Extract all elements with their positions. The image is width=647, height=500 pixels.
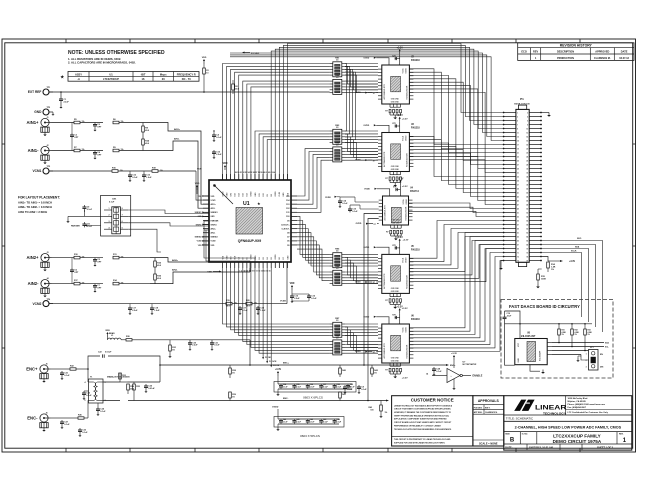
svg-text:THIS CIRCUIT IS PROPRIETARY TO: THIS CIRCUIT IS PROPRIETARY TO LINEAR TE… bbox=[394, 438, 451, 441]
svg-text:VDD: VDD bbox=[207, 272, 212, 274]
buffer U6 FIN1218 #4 bbox=[355, 306, 421, 379]
wire enc mid to nets bbox=[160, 365, 230, 401]
fast daacs dashed box bbox=[501, 300, 613, 379]
svg-text:ROIZZEZZOIZR: ROIZZEZZOIZR bbox=[406, 85, 408, 99]
resistor network RN6 bbox=[330, 266, 345, 285]
svg-text:APPROVALS: APPROVALS bbox=[478, 399, 500, 403]
svg-text:GND GND: GND GND bbox=[391, 360, 400, 362]
svg-text:SENSE1: SENSE1 bbox=[211, 212, 218, 214]
svg-text:VDD: VDD bbox=[290, 283, 295, 285]
resistor R7 bbox=[52, 147, 104, 152]
svg-text:ENC+: ENC+ bbox=[450, 365, 456, 367]
svg-text:VCM2: VCM2 bbox=[211, 241, 216, 243]
svg-text:65: 65 bbox=[517, 240, 519, 242]
svg-text:6: 6 bbox=[122, 221, 123, 223]
svg-text:VERIFY PROPER AND RELIABLE OPE: VERIFY PROPER AND RELIABLE OPERATION IN … bbox=[394, 414, 450, 417]
svg-text:SDO: SDO bbox=[577, 238, 582, 240]
resistor network RN4 bbox=[330, 142, 345, 162]
resistor R21 pullup bbox=[558, 324, 567, 344]
svg-text:OVDD: OVDD bbox=[251, 254, 253, 260]
svg-text:49.9: 49.9 bbox=[235, 87, 239, 90]
node PAR SER label bbox=[71, 224, 101, 227]
power VDD left rail bbox=[195, 183, 200, 194]
svg-text:5: 5 bbox=[122, 227, 123, 229]
resistor network RN1 bbox=[330, 57, 345, 76]
svg-text:R23: R23 bbox=[588, 330, 591, 332]
svg-text:AIN2-: AIN2- bbox=[172, 269, 178, 272]
svg-text:19: 19 bbox=[517, 148, 519, 150]
svg-text:SDI: SDI bbox=[230, 256, 232, 259]
svg-text:CLKOUT+: CLKOUT+ bbox=[281, 224, 290, 226]
svg-text:17: 17 bbox=[517, 144, 519, 146]
svg-text:GND: GND bbox=[211, 216, 216, 218]
svg-text:100: 100 bbox=[370, 409, 373, 411]
svg-text:U1: U1 bbox=[109, 72, 113, 76]
svg-text:R?: R? bbox=[385, 110, 387, 112]
svg-text:D14: D14 bbox=[286, 199, 289, 202]
svg-text:TECHNOLOGY: TECHNOLOGY bbox=[543, 411, 566, 415]
svg-text:10: 10 bbox=[206, 72, 208, 74]
capacitor C20 enc bbox=[51, 369, 71, 380]
notes text bbox=[68, 50, 165, 65]
connector J2 AIN1- bbox=[28, 145, 52, 164]
svg-text:-BIT: -BIT bbox=[140, 72, 145, 76]
connector J1 AIN1+ bbox=[27, 117, 52, 136]
wire bus U1 right down channel to RN5 RN6 bbox=[297, 216, 330, 280]
svg-text:PRODUCTION: PRODUCTION bbox=[557, 57, 574, 60]
resistor network enc mid bbox=[103, 373, 160, 401]
wire eeprom signals bbox=[552, 342, 609, 355]
resistor R9 bbox=[113, 147, 150, 152]
inverter U7 NC7SP14P5X bbox=[426, 362, 483, 390]
revision history table bbox=[518, 43, 634, 61]
svg-text:ACTZABEZLRTR: ACTZABEZLRTR bbox=[384, 205, 387, 221]
svg-text:2.2uF: 2.2uF bbox=[64, 101, 70, 103]
resistor R24 bbox=[142, 136, 150, 151]
svg-text:OVDD: OVDD bbox=[363, 125, 369, 127]
resistor R6 bbox=[113, 119, 150, 124]
svg-text:LINEAR TECHNOLOGY HAS MADE A B: LINEAR TECHNOLOGY HAS MADE A BEST EFFORT… bbox=[394, 404, 453, 407]
resistor R25 bbox=[154, 258, 162, 271]
wire VCM2 vertical to U1 bbox=[280, 262, 287, 304]
svg-text:NOTE: UNLESS OTHERWISE SPECIFI: NOTE: UNLESS OTHERWISE SPECIFIED bbox=[68, 50, 165, 56]
resistor R26 bbox=[154, 271, 162, 284]
svg-text:D5: D5 bbox=[287, 245, 289, 247]
svg-text:OVDD: OVDD bbox=[222, 191, 224, 197]
svg-text:D6: D6 bbox=[287, 241, 289, 243]
wire AIN2 to U1 pins bbox=[204, 221, 255, 272]
svg-text:R?: R? bbox=[386, 231, 388, 233]
svg-text:12: 12 bbox=[526, 132, 528, 134]
svg-text:D2: D2 bbox=[259, 257, 261, 259]
svg-text:GND: GND bbox=[518, 358, 520, 363]
resistor R36 enc- series bbox=[62, 401, 89, 420]
svg-text:AIN2-: AIN2- bbox=[28, 281, 40, 286]
svg-text:R?: R? bbox=[385, 369, 387, 371]
svg-text:OVDD: OVDD bbox=[275, 254, 277, 260]
svg-text:APP ENG.: APP ENG. bbox=[474, 411, 483, 414]
wire ENC- to clock buffer bbox=[367, 219, 379, 402]
resistor R5 bbox=[52, 119, 104, 124]
wire staircase RN5 to U5 lower bbox=[345, 257, 378, 283]
svg-text:CLARENCE M.: CLARENCE M. bbox=[485, 411, 498, 414]
svg-text:BEAD: BEAD bbox=[109, 332, 115, 335]
svg-text:1.0uF: 1.0uF bbox=[146, 177, 152, 179]
U1 top pins bbox=[222, 171, 289, 197]
svg-text:CLK2: CLK2 bbox=[279, 192, 281, 197]
wire bus P1 right to board id bbox=[542, 238, 603, 332]
svg-text:0.1uF: 0.1uF bbox=[64, 375, 70, 377]
resistor R18 bbox=[118, 167, 196, 172]
svg-text:0.1uF: 0.1uF bbox=[436, 371, 442, 373]
svg-text:0.1uF: 0.1uF bbox=[361, 389, 367, 391]
label T1 part bbox=[107, 376, 130, 379]
svg-text:J6: J6 bbox=[46, 412, 48, 414]
svg-text:VCCA: VCCA bbox=[401, 135, 404, 141]
svg-text:R?: R? bbox=[385, 300, 387, 302]
IC U1 LTC2270CUP ADC QFN64 bbox=[209, 180, 291, 262]
svg-text:68: 68 bbox=[526, 244, 528, 246]
svg-text:R33: R33 bbox=[122, 375, 125, 377]
svg-text:31: 31 bbox=[517, 172, 519, 174]
svg-text:37: 37 bbox=[517, 184, 519, 186]
svg-text:OND OND: OND OND bbox=[391, 166, 400, 168]
svg-text:51: 51 bbox=[517, 212, 519, 214]
svg-text:3: 3 bbox=[586, 367, 587, 369]
resistor R11 bbox=[113, 254, 150, 259]
svg-text:+3.3V: +3.3V bbox=[397, 306, 404, 308]
svg-text:D4: D4 bbox=[266, 257, 269, 259]
svg-text:18: 18 bbox=[526, 144, 528, 146]
svg-text:2.2uF: 2.2uF bbox=[294, 298, 300, 300]
svg-text:8: 8 bbox=[527, 124, 528, 126]
U1 left pins bbox=[203, 196, 219, 247]
capacitor C6 OPT bbox=[70, 258, 79, 284]
svg-text:OND OND: OND OND bbox=[391, 358, 400, 360]
buffer U3 FIN1218 #2 bbox=[355, 115, 421, 188]
svg-text:0.1uF: 0.1uF bbox=[82, 432, 88, 434]
svg-text:ACTZABEZLRTR: ACTZABEZLRTR bbox=[383, 343, 386, 359]
svg-text:52: 52 bbox=[526, 212, 528, 214]
resistor R16 bbox=[49, 167, 123, 172]
svg-text:28: 28 bbox=[526, 164, 528, 166]
svg-text:62: 62 bbox=[526, 232, 528, 234]
svg-text:2.2uF: 2.2uF bbox=[132, 310, 138, 312]
svg-text:D0: D0 bbox=[243, 257, 245, 259]
capacitor C33 encj bbox=[78, 428, 88, 437]
svg-text:2.2uF: 2.2uF bbox=[216, 154, 222, 156]
svg-text:LTC2270CUP: LTC2270CUP bbox=[103, 77, 119, 81]
svg-text:OVDD: OVDD bbox=[363, 247, 369, 249]
svg-text:OVDD: OVDD bbox=[363, 316, 369, 318]
svg-text:38: 38 bbox=[526, 184, 528, 186]
svg-text:53: 53 bbox=[517, 216, 519, 218]
wire AIN2- net bbox=[150, 269, 250, 284]
svg-text:+3.3V: +3.3V bbox=[402, 186, 408, 188]
svg-text:11: 11 bbox=[517, 132, 519, 134]
wire ENC- net bbox=[230, 398, 389, 402]
wire RN1 RN2 outputs to U2 bbox=[345, 64, 378, 93]
svg-text:55: 55 bbox=[517, 220, 519, 222]
resistor R13 bbox=[113, 279, 150, 285]
svg-text:D10: D10 bbox=[286, 216, 289, 218]
resistor R39 enc term2 bbox=[229, 392, 236, 401]
svg-text:KIM T.: KIM T. bbox=[485, 407, 491, 409]
svg-text:+3.3V: +3.3V bbox=[397, 237, 404, 239]
svg-text:APPLICATION. COMPONENT SUBSTIT: APPLICATION. COMPONENT SUBSTITUTION AND … bbox=[394, 418, 447, 421]
svg-text:0.1uF: 0.1uF bbox=[86, 395, 92, 397]
buffer U2 FIN1218 #1 bbox=[355, 47, 421, 120]
svg-text:OODD: OODD bbox=[405, 67, 407, 73]
svg-text:ACTZABEZLRTR: ACTZABEZLRTR bbox=[383, 84, 386, 100]
svg-text:OODD: OODD bbox=[405, 257, 407, 263]
svg-text:-A: -A bbox=[77, 77, 80, 81]
capacitor C26 enc- bbox=[51, 418, 71, 429]
resistor R4 bbox=[142, 123, 149, 137]
linear technology logo bbox=[514, 399, 567, 416]
wire bus U1 top to RN3 bbox=[255, 131, 330, 180]
svg-text:70: 70 bbox=[526, 248, 528, 250]
connector J5 ENC+ bbox=[26, 363, 50, 382]
capacitor C22 coupling bbox=[98, 352, 112, 358]
svg-text:OVDD: OVDD bbox=[275, 191, 277, 197]
svg-text:20: 20 bbox=[526, 148, 528, 150]
wire boardid top rail bbox=[505, 311, 593, 325]
svg-text:13: 13 bbox=[517, 136, 519, 138]
svg-text:X?: X? bbox=[374, 224, 376, 226]
svg-text:0.1uF: 0.1uF bbox=[100, 411, 106, 413]
svg-text:49.9: 49.9 bbox=[157, 264, 161, 267]
svg-text:0.1uF: 0.1uF bbox=[216, 137, 222, 139]
svg-text:3: 3 bbox=[109, 221, 110, 223]
wire bus U1 bottom SPI stubs bbox=[262, 268, 280, 367]
svg-text:P1: P1 bbox=[520, 97, 524, 101]
capacitor C10 clock bbox=[348, 205, 360, 213]
capacitor C30 shunt bbox=[188, 340, 198, 351]
svg-text:OVDD: OVDD bbox=[363, 57, 369, 59]
svg-text:2: 2 bbox=[527, 112, 528, 114]
svg-text:AIN1+: AIN1+ bbox=[27, 120, 40, 125]
resistor R23 pullup bbox=[584, 324, 593, 352]
svg-text:D1: D1 bbox=[247, 257, 249, 259]
svg-text:D8: D8 bbox=[287, 233, 289, 235]
capacitor C9 bbox=[82, 205, 92, 216]
svg-text:VDD: VDD bbox=[195, 183, 200, 185]
svg-text:FIN1218: FIN1218 bbox=[411, 319, 421, 321]
capacitor C5 OPT bbox=[93, 258, 102, 267]
svg-text:0.1uF: 0.1uF bbox=[347, 389, 353, 391]
resistor R41 mid term bbox=[339, 392, 346, 401]
svg-text:FIN1218: FIN1218 bbox=[411, 128, 421, 130]
svg-text:1%: 1% bbox=[385, 412, 388, 414]
svg-text:OODD: OODD bbox=[406, 198, 408, 204]
wire vdd rail drop to enc bbox=[249, 340, 251, 366]
svg-text:OVDD: OVDD bbox=[325, 197, 331, 199]
svg-text:D9: D9 bbox=[267, 194, 269, 196]
svg-text:33: 33 bbox=[517, 176, 519, 178]
svg-text:ASSY: ASSY bbox=[75, 72, 82, 76]
capacitor C10b shunt bbox=[212, 150, 222, 159]
svg-text:DEMO CIRCUIT 1975A: DEMO CIRCUIT 1975A bbox=[553, 439, 602, 444]
approvals block bbox=[473, 396, 504, 446]
svg-text:39: 39 bbox=[517, 188, 519, 190]
capacitor C4b shunt bbox=[212, 130, 222, 142]
svg-text:IC NO.: IC NO. bbox=[522, 434, 529, 436]
svg-text:PCB DES.: PCB DES. bbox=[474, 407, 483, 409]
svg-text:VCCA: VCCA bbox=[401, 327, 404, 333]
svg-text:LTC Confidential-For Customer: LTC Confidential-For Customer Use Only bbox=[568, 411, 609, 414]
wire RN7 RN8 outputs to U6 bbox=[345, 324, 378, 353]
wire clock inputs bbox=[355, 197, 379, 209]
svg-text:D9: D9 bbox=[287, 220, 289, 222]
svg-text:27: 27 bbox=[517, 164, 519, 166]
svg-text:OVDD: OVDD bbox=[251, 191, 253, 197]
svg-text:9: 9 bbox=[517, 128, 518, 130]
svg-text:63: 63 bbox=[517, 236, 519, 238]
svg-text:VCM1: VCM1 bbox=[211, 200, 216, 202]
resistor R32 enc series bbox=[62, 365, 88, 382]
svg-text:26: 26 bbox=[526, 160, 528, 162]
capacitor C13 bbox=[142, 171, 152, 182]
address block bbox=[566, 397, 632, 414]
test point TP1 EXT REF bbox=[28, 87, 53, 95]
resistor R40 mid term bbox=[339, 365, 346, 377]
svg-text:Phone: (408)432-1900 www.lin: Phone: (408)432-1900 www.linear.com bbox=[568, 403, 606, 406]
svg-text:67: 67 bbox=[517, 244, 519, 246]
svg-text:+3.3V: +3.3V bbox=[569, 261, 576, 263]
svg-text:APPROVED: APPROVED bbox=[595, 51, 609, 54]
wire bus U1 bottom to RN7 RN8 bbox=[223, 268, 330, 353]
capacitor C2 OPT bbox=[93, 123, 102, 132]
svg-text:0.1uF: 0.1uF bbox=[342, 203, 348, 205]
wire ext-ref net bbox=[49, 91, 330, 93]
svg-text:AIN2+: AIN2+ bbox=[211, 227, 216, 230]
svg-text:D13: D13 bbox=[286, 204, 289, 206]
svg-text:VCM2: VCM2 bbox=[33, 302, 42, 306]
svg-text:AIN2+ TO AIN2- = 0.8 INCH: AIN2+ TO AIN2- = 0.8 INCH bbox=[18, 205, 52, 209]
ground P1 bottom left bbox=[499, 261, 503, 270]
resistor network RN7 bbox=[330, 318, 345, 337]
svg-text:7: 7 bbox=[122, 215, 123, 217]
svg-text:57: 57 bbox=[517, 224, 519, 226]
svg-text:ROIZZEZZOIZR: ROIZZEZZOIZR bbox=[406, 153, 408, 167]
svg-text:OVDD: OVDD bbox=[364, 188, 370, 190]
title text bbox=[506, 417, 622, 430]
power OVDD clock feed bbox=[325, 196, 340, 199]
svg-text:SENSE2: SENSE2 bbox=[195, 237, 202, 239]
date row bbox=[505, 444, 613, 450]
svg-text:SCLSDAWP: SCLSDAWP bbox=[539, 350, 542, 361]
svg-text:SHDN1: SHDN1 bbox=[211, 224, 217, 226]
svg-text:ECO: ECO bbox=[521, 51, 526, 54]
power VDD R1 rail bbox=[202, 57, 209, 93]
svg-text:OF2: OF2 bbox=[230, 193, 232, 196]
capacitor C31 shunt bbox=[210, 340, 220, 351]
svg-text:R22: R22 bbox=[575, 330, 578, 332]
svg-text:0.1uF: 0.1uF bbox=[214, 345, 220, 347]
connector J4 AIN2- bbox=[28, 277, 52, 297]
svg-text:PAR/SER: PAR/SER bbox=[71, 224, 80, 227]
svg-text:OND OND: OND OND bbox=[391, 288, 400, 290]
svg-text:1.0uF: 1.0uF bbox=[154, 310, 160, 312]
connector CN1 block bbox=[101, 195, 131, 236]
svg-text:NC7SP14P5X: NC7SP14P5X bbox=[463, 363, 477, 366]
svg-text:REVISION HISTORY: REVISION HISTORY bbox=[560, 44, 593, 48]
svg-text:ENC+: ENC+ bbox=[283, 362, 290, 364]
svg-text:2-CHANNEL, HIGH SPEED LOW POWE: 2-CHANNEL, HIGH SPEED LOW POWER ADC FAMI… bbox=[515, 426, 622, 430]
svg-text:0603 X 5PLCS: 0603 X 5PLCS bbox=[300, 434, 320, 438]
svg-text:76: 76 bbox=[526, 260, 528, 262]
wire inter-IC drop U2 to U3 bbox=[345, 64, 356, 140]
capacitor C18L bbox=[150, 304, 160, 315]
svg-text:FOR LAYOUT PLACEMENT:: FOR LAYOUT PLACEMENT: bbox=[18, 196, 60, 200]
svg-text:25: 25 bbox=[517, 160, 519, 162]
svg-text:D11: D11 bbox=[286, 212, 289, 214]
svg-text:PERFORMANCE OR RELIABILITY. CO: PERFORMANCE OR RELIABILITY. CONTACT LINE… bbox=[394, 424, 441, 427]
svg-text:D6: D6 bbox=[279, 257, 281, 259]
svg-text:58: 58 bbox=[526, 224, 528, 226]
resistor R20 bbox=[232, 300, 287, 308]
svg-text:VDD: VDD bbox=[202, 57, 207, 59]
svg-text:VCM1: VCM1 bbox=[33, 169, 42, 173]
svg-text:OVDD: OVDD bbox=[272, 407, 279, 409]
wire bus U4 clock to P1 bbox=[409, 203, 503, 217]
svg-text:OODD: OODD bbox=[405, 326, 407, 332]
title block main bbox=[504, 396, 632, 450]
svg-text:GND GND: GND GND bbox=[391, 101, 400, 103]
svg-text:Msps: Msps bbox=[160, 72, 167, 76]
svg-text:CIRCUIT BOARD LAYOUT MAY SIGNI: CIRCUIT BOARD LAYOUT MAY SIGNIFICANTLY A… bbox=[394, 421, 452, 424]
svg-text:FAST DAACS BOARD ID CIRCUITRY: FAST DAACS BOARD ID CIRCUITRY bbox=[509, 304, 580, 309]
svg-text:75: 75 bbox=[517, 260, 519, 262]
svg-text:23: 23 bbox=[517, 156, 519, 158]
capacitor C1 bbox=[59, 91, 70, 108]
capacitor C23 xfmr bbox=[82, 391, 92, 400]
svg-text:SUPPLIED FOR USE WITH LINEAR T: SUPPLIED FOR USE WITH LINEAR TECHNOLOGY … bbox=[394, 442, 446, 445]
svg-text:D8: D8 bbox=[271, 194, 273, 196]
svg-text:+3.3V: +3.3V bbox=[402, 119, 408, 121]
wire AIN1- net bbox=[150, 138, 209, 209]
svg-text:DATE: DATE bbox=[621, 51, 628, 54]
capacitor C7 OPT bbox=[93, 284, 102, 293]
resistor R43 end term bbox=[369, 401, 388, 418]
svg-text:FIN1218: FIN1218 bbox=[411, 250, 421, 252]
svg-text:B: B bbox=[510, 438, 515, 444]
svg-text:22: 22 bbox=[526, 152, 528, 154]
svg-text:36: 36 bbox=[526, 180, 528, 182]
resistor R10 bbox=[52, 254, 104, 259]
test point TP2 GND bbox=[34, 107, 54, 115]
svg-text:VCM2: VCM2 bbox=[280, 301, 287, 303]
eeprom U8 24LC025 bbox=[515, 324, 552, 374]
svg-text:59: 59 bbox=[517, 228, 519, 230]
capacitor C15 bbox=[290, 294, 300, 303]
svg-text:0.1uF: 0.1uF bbox=[352, 211, 358, 213]
svg-text:AIN1+: AIN1+ bbox=[211, 203, 216, 206]
svg-text:OND OND: OND OND bbox=[391, 99, 400, 101]
svg-text:4: 4 bbox=[109, 226, 110, 229]
svg-text:ROIZZEZZOIZR: ROIZZEZZOIZR bbox=[406, 206, 408, 220]
svg-text:D12: D12 bbox=[286, 208, 289, 210]
svg-text:J3: J3 bbox=[47, 252, 49, 254]
svg-text:71: 71 bbox=[517, 252, 519, 254]
wire bus U1 right up channel to RN4 bbox=[297, 149, 330, 213]
ground T1 center bbox=[96, 403, 106, 416]
svg-text:2.2uF: 2.2uF bbox=[192, 345, 198, 347]
svg-text:0.1uF: 0.1uF bbox=[87, 226, 93, 228]
capacitor C4 OPT bbox=[93, 151, 102, 160]
svg-text:TITLE: SCHEMATIC: TITLE: SCHEMATIC bbox=[506, 417, 534, 421]
